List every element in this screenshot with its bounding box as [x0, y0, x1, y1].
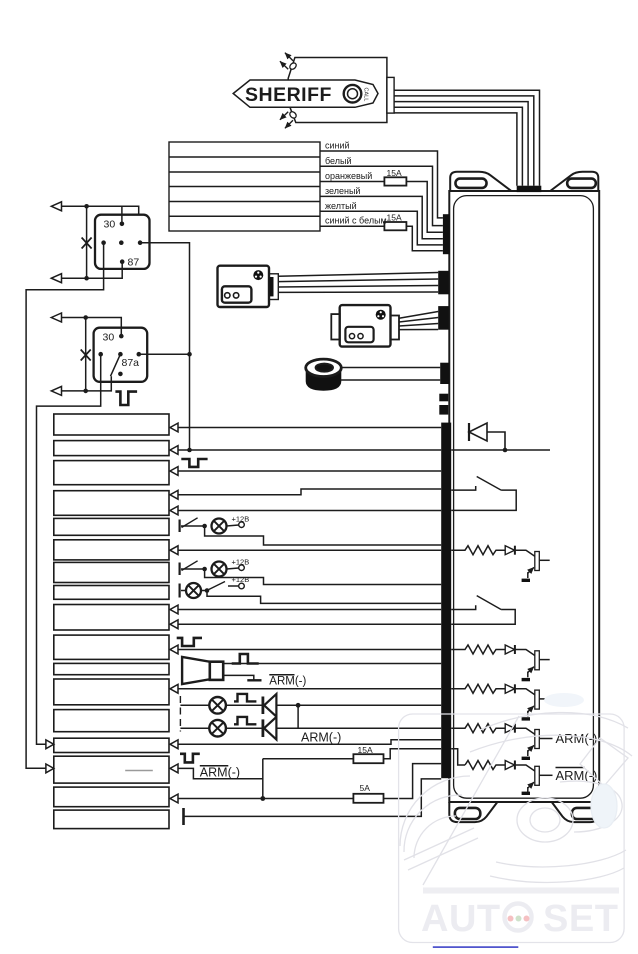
flasher lamp 1 [209, 697, 226, 714]
diode row2 [261, 719, 264, 737]
lamp L8 [186, 583, 201, 598]
relay K2 blade [111, 354, 121, 376]
wire box9b [178, 623, 441, 625]
wire row1 to unit [276, 704, 441, 706]
pulse symbol box10 (negative) [177, 638, 202, 646]
arrow box16 [170, 794, 178, 803]
switch SW7 [179, 563, 181, 576]
svg-text:5A: 5A [360, 783, 371, 793]
node dot A1 [84, 204, 89, 209]
node dot flasher [296, 703, 301, 708]
unit left long connector bar [441, 423, 451, 779]
node dot box7 [202, 567, 207, 572]
svg-text:ARM(-): ARM(-) [200, 766, 240, 780]
relay K1 pin 87 [120, 259, 125, 264]
svg-text:SHERIFF: SHERIFF [245, 84, 332, 106]
unit bottom-left mounting foot [449, 802, 497, 822]
+12V terminal box7 [227, 568, 239, 569]
ARM bar terminal [247, 679, 261, 681]
diode D1 inside unit [469, 423, 505, 450]
wire box15 to fuse riser [178, 768, 263, 778]
stage D transistor Q4 [515, 728, 535, 734]
svg-text:SET: SET [543, 898, 618, 940]
vertical lamp-cross wire K2 [85, 318, 87, 391]
watermark AUTO SET band [423, 888, 619, 894]
box 2 [54, 441, 169, 456]
module M2 button (black) [376, 310, 386, 320]
fuse F1 15A [384, 177, 406, 185]
remote antenna arrow 4 [280, 112, 288, 120]
wire K2 right pin to spine [139, 353, 190, 355]
dashed link flasher [179, 696, 181, 732]
switch S2 inside unit [451, 596, 515, 625]
svg-text:ARM(-): ARM(-) [269, 676, 306, 688]
arrow terminal A3 [51, 313, 61, 322]
wire row2 to unit [276, 727, 441, 729]
box 3 [54, 461, 169, 485]
flasher lamp 2 [209, 720, 226, 737]
svg-text:белый: белый [325, 156, 352, 166]
module M2 wire 1 [399, 312, 438, 319]
wire белый [320, 166, 443, 225]
unit top wire connector (black) [517, 186, 542, 192]
wire box1 [178, 427, 441, 429]
wire box6 [178, 549, 441, 551]
box 1 [54, 414, 169, 435]
node dot spine-row2 [187, 448, 192, 453]
link underline (blue) [433, 946, 519, 948]
wire box16 to fuse [178, 798, 353, 800]
remote wire 4 [394, 107, 522, 186]
watermark box [399, 714, 624, 943]
unit left connector block B5a [439, 394, 448, 402]
ring wire 2 [341, 379, 441, 381]
wire horn to ARM bar [223, 675, 254, 679]
remote antenna arrow 2 [280, 61, 288, 69]
relay K2 pin right [137, 352, 142, 357]
siren horn driver [210, 662, 223, 680]
remote wire 5 [394, 113, 517, 186]
switch S1 inside unit [451, 477, 516, 511]
stage D diode [505, 724, 514, 733]
diode row1 [261, 697, 264, 715]
box 7 [54, 562, 169, 582]
stage B ground [522, 678, 530, 681]
svg-text:ARM(-): ARM(-) [301, 731, 341, 745]
arrow box9b [170, 620, 178, 629]
wire K1 right pin down the spine [140, 243, 189, 450]
box 8 [54, 586, 169, 600]
lamp L8 terminal bar [179, 584, 181, 598]
wire box9a [178, 609, 441, 611]
module M2 wire 2 [399, 318, 438, 323]
stage E feed jog [451, 749, 465, 765]
vertical lamp-cross wire K1 [86, 206, 88, 278]
wire box14 [178, 740, 441, 745]
wire K2 left pin to bus B [37, 354, 101, 744]
svg-text:AUT: AUT [421, 898, 501, 940]
remote antenna ellipse bottom [289, 110, 298, 119]
unit left connector block B4 [440, 363, 449, 384]
module M2 socket hole 2 [358, 334, 363, 339]
X mark K1 [82, 238, 92, 249]
module M2 inner socket [345, 327, 373, 343]
relay K2 pin 87a [118, 372, 123, 377]
unit top-right ear hole [567, 179, 596, 188]
stage B resistor [451, 645, 505, 654]
stage C diode [505, 684, 514, 693]
wire A4 to K2 blade [86, 376, 112, 391]
+12V terminal box8 [228, 585, 239, 587]
module M1 socket hole 2 [233, 293, 238, 298]
X mark K2 [81, 350, 91, 361]
flasher lamp row 2 wire [180, 727, 209, 729]
unit left connector block B3 [438, 306, 449, 330]
pulse symbol horn (positive inline) [232, 654, 259, 664]
unit bottom-right mounting foot [552, 802, 599, 822]
wire box4a [178, 489, 441, 495]
svg-text:15A: 15A [358, 745, 373, 755]
remote transmitter body [288, 58, 387, 123]
box 11 [54, 663, 169, 674]
box 16 [54, 787, 169, 807]
wire label block row lines [169, 157, 320, 216]
arrow box4a [170, 490, 178, 499]
wire K1 left pin to bus A [26, 243, 104, 769]
wire label block [169, 142, 320, 231]
svg-text:87a: 87a [122, 357, 140, 369]
fuse F3 15A [353, 754, 383, 763]
relay K1 pin 30 [120, 222, 125, 227]
wire синий с белым [320, 226, 443, 251]
svg-text:желтый: желтый [325, 201, 357, 211]
pulse symbol row1 (positive) [234, 694, 256, 702]
dash inside box15 [125, 770, 153, 772]
stage A ground [522, 579, 530, 582]
wire horn out [223, 663, 441, 665]
+12V terminal box5 [227, 525, 239, 526]
fuse F2 15A [384, 222, 406, 230]
arrow box9a [170, 605, 178, 614]
stage A resistor [451, 546, 505, 555]
module M1 button (black) [253, 270, 263, 280]
svg-text:30: 30 [104, 219, 116, 231]
wire fuse F3 to unit [384, 749, 442, 759]
node dot A2 [84, 276, 89, 281]
module M2 wire 4 [399, 329, 438, 331]
arrow box15 left (in) [46, 764, 54, 773]
stage E transistor Q5 [515, 765, 535, 771]
arrow box2 [170, 446, 178, 455]
module M1 wire 1 [278, 273, 438, 277]
remote wire 1 [394, 90, 539, 185]
stage E diode [505, 761, 514, 770]
node dot box5 [202, 524, 207, 529]
node dot riser-box16 [260, 796, 265, 801]
remote antenna arrow 1 [285, 53, 293, 61]
wire синий [320, 151, 443, 218]
arrow terminal A1 [51, 202, 61, 211]
pulse symbol box3 (negative) [181, 459, 207, 467]
box 9 [54, 605, 169, 631]
module M2 (shock sensor) body [340, 305, 391, 347]
arrow box14 right [170, 740, 178, 749]
svg-text:CALL: CALL [363, 88, 369, 102]
stage E ground [522, 792, 530, 795]
stage B transistor Q2 [515, 650, 535, 656]
module M2 right tab [391, 316, 400, 340]
box 17 [54, 810, 169, 829]
relay K2 pin common [118, 352, 123, 357]
remote banner label [233, 80, 378, 107]
wire A2 to K1 pin 87 [87, 262, 123, 279]
svg-text:оранжевый: оранжевый [325, 171, 372, 181]
stage C resistor [451, 684, 505, 693]
flasher lamp row 1 wire [180, 704, 209, 706]
wire box17 [184, 779, 442, 817]
remote wire 2 [394, 96, 534, 186]
module M1 wire 2 [278, 279, 438, 282]
stage C transistor Q3 [515, 689, 535, 695]
svg-text:+12В: +12В [232, 557, 250, 566]
ring wire 1 [341, 367, 440, 369]
svg-text:30: 30 [103, 332, 115, 344]
unit top-left mounting ear [450, 172, 511, 191]
arrow box14 left (in) [46, 740, 54, 749]
arrow box10 [170, 645, 178, 654]
stage B diode [505, 645, 514, 654]
module M1 socket hole 1 [225, 293, 230, 298]
relay K1 pin right [138, 240, 143, 245]
arrow box12 [170, 684, 178, 693]
wire box12 [178, 688, 441, 690]
MODULE-GROUP [218, 266, 441, 391]
fuse F4 5A [353, 794, 383, 803]
stage D ground [522, 757, 530, 760]
WATERMARK-GROUP (stamp overlay) [399, 693, 632, 948]
node dot A4 [83, 389, 88, 394]
module M1 connector tab [269, 274, 278, 300]
box 12 [54, 679, 169, 705]
riser wire [262, 759, 264, 799]
module M1 wire 3 [278, 286, 438, 288]
pulse symbol row2 (positive) [234, 717, 256, 724]
stage D resistor [451, 724, 505, 733]
unit bottom-right foot hole [572, 808, 597, 819]
node dot A3 [83, 315, 88, 320]
relay K1 pin common [119, 240, 124, 245]
arrow box6 [170, 546, 178, 555]
svg-text:+12В: +12В [232, 514, 250, 523]
unit bottom-left foot hole [455, 808, 480, 819]
stage C ground [522, 717, 530, 720]
wire box7 out [205, 569, 442, 585]
box 6 [54, 540, 169, 560]
wire box8 out [207, 591, 441, 604]
node dot spine-K2 [187, 352, 192, 357]
wire fuse F4 to unit [384, 764, 442, 799]
svg-text:15A: 15A [387, 213, 402, 223]
watermark car outline [400, 693, 632, 885]
svg-text:синий: синий [325, 141, 350, 151]
module M1 (valet/LED module) body [218, 266, 270, 307]
siren horn bell [182, 657, 210, 684]
module M2 socket hole 1 [349, 334, 354, 339]
remote antenna ellipse top [289, 62, 298, 71]
lamp L7 [212, 562, 227, 577]
svg-text:зеленый: зеленый [325, 186, 360, 196]
remote wire 3 [394, 102, 528, 186]
arrow box4b [170, 506, 178, 515]
remote CALL button [344, 85, 362, 103]
module M1 wire 4 [278, 291, 438, 293]
module M1 inner socket [222, 286, 252, 302]
LEFTCOL-GROUP [46, 414, 441, 829]
switch SW5 [179, 520, 181, 533]
unit inner face [454, 196, 594, 799]
unit left connector block B5b [439, 405, 448, 415]
box 15 [54, 756, 169, 783]
node dot box8 [205, 588, 210, 593]
module M2 left tab [331, 314, 339, 339]
svg-text:синий с белым: синий с белым [325, 216, 387, 226]
wire box4b [178, 510, 441, 512]
stage A diode [505, 546, 514, 555]
remote cable exit block [387, 77, 394, 113]
wire K1 pin30 to top rail [87, 206, 139, 224]
arrow terminal A4 [51, 386, 61, 395]
unit left connector block B2 [438, 271, 449, 295]
remote antenna arrow 3 [285, 120, 293, 128]
unit top-right mounting ear [550, 172, 598, 191]
svg-text:+12В: +12В [232, 575, 250, 584]
relay K2 body [94, 328, 148, 382]
wire желтый [320, 211, 443, 245]
ring antenna side (black) [306, 368, 342, 391]
ring antenna hole [316, 364, 333, 372]
wire K2 pin30 to top rail [86, 318, 122, 337]
box 4 [54, 491, 169, 516]
svg-text:15A: 15A [387, 168, 402, 178]
lamp L5 [212, 519, 227, 534]
wire оранжевый [320, 182, 443, 233]
wire зеленый [320, 196, 443, 238]
arrow terminal A2 [51, 274, 61, 283]
RELAY-GROUP [26, 202, 192, 769]
node N1 (dot on wire y450) [503, 448, 508, 453]
relay K1 body [95, 215, 150, 269]
ring antenna top face [306, 359, 342, 376]
box 10 [54, 635, 169, 659]
wire row2 inside unit [451, 449, 550, 451]
box 14 [54, 738, 169, 752]
wire flasher join [297, 705, 299, 728]
svg-text:87: 87 [128, 257, 140, 269]
TOP-GROUP (remote + wire label block) [169, 53, 540, 251]
module M2 wire 3 [399, 324, 438, 327]
arrow box1 [170, 423, 178, 432]
unit top-left ear hole [456, 179, 487, 188]
relay K2 pin 30 [119, 334, 124, 339]
wire box3 [178, 470, 441, 472]
MAIN-UNIT-GROUP [438, 172, 599, 822]
wire box10 [178, 649, 441, 651]
arrow box15 right [170, 764, 178, 773]
wire box5 out [205, 526, 442, 545]
wire box2 [178, 449, 441, 451]
terminal bar box17 [182, 808, 185, 825]
pulse symbol box14 (negative) [180, 754, 200, 763]
unit outer body [449, 191, 599, 802]
box 13 [54, 710, 169, 732]
relay K2 pin left [98, 352, 103, 357]
relay K1 pin left [101, 240, 106, 245]
pulse symbol below K2 (negative) [115, 392, 137, 405]
stage A transistor Q1 [515, 550, 535, 556]
stage E resistor [465, 761, 505, 770]
box 5 [54, 518, 169, 535]
wire riser to fuse [263, 758, 354, 760]
switch SW8 [209, 582, 225, 590]
OUTPUT-STAGES-GROUP [451, 546, 597, 795]
unit left connector block B1 [443, 214, 450, 254]
arrow box3 [170, 467, 178, 476]
